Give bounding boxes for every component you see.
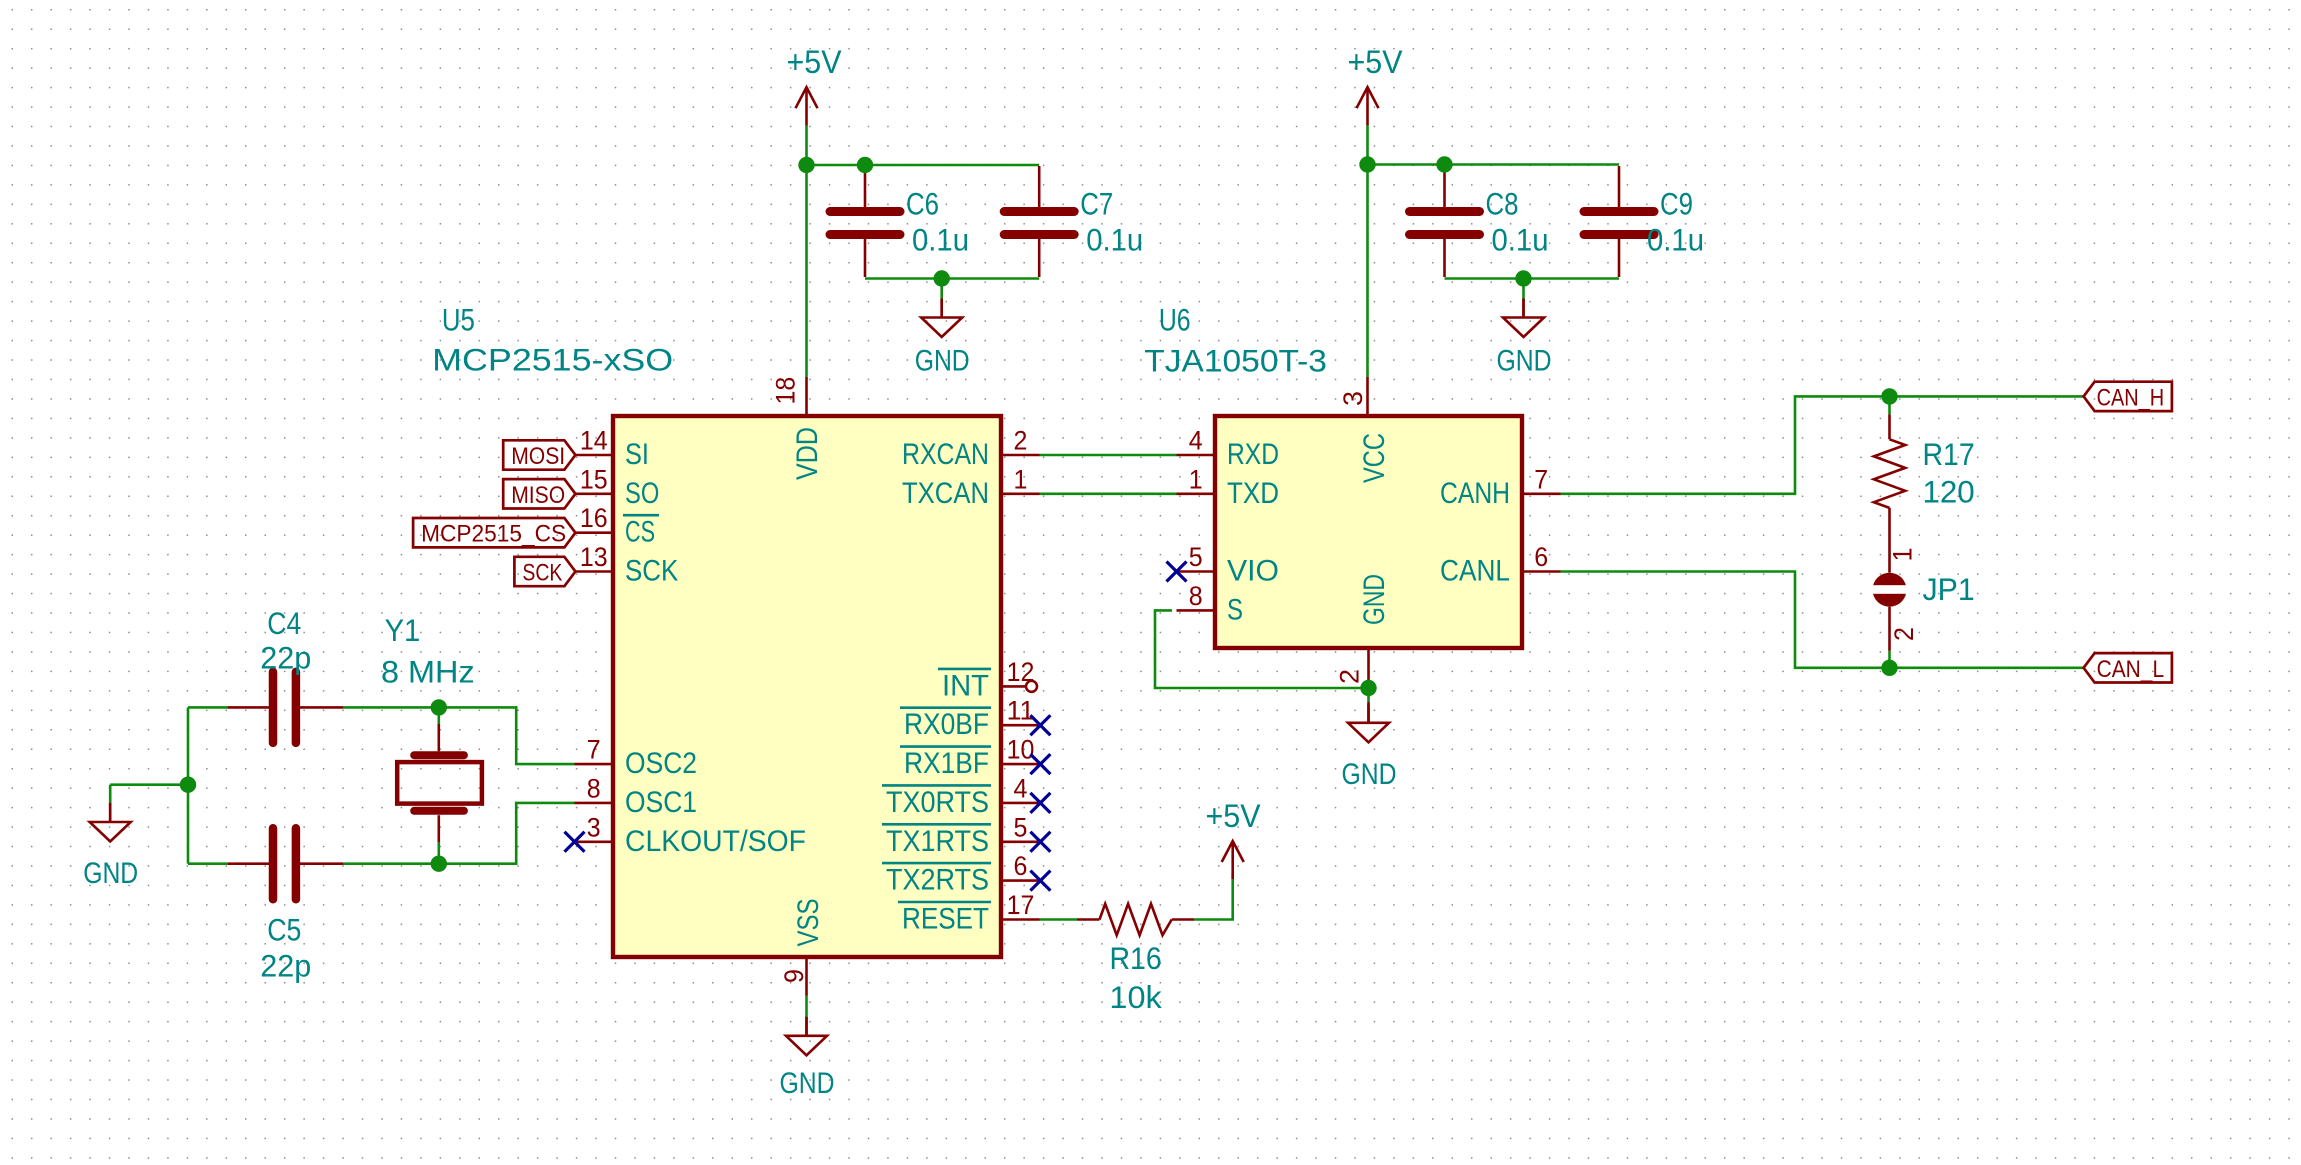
svg-text:0.1u: 0.1u bbox=[1086, 222, 1143, 258]
svg-text:11: 11 bbox=[1007, 696, 1035, 726]
svg-text:CAN_H: CAN_H bbox=[2097, 384, 2165, 411]
svg-text:7: 7 bbox=[587, 735, 601, 765]
svg-text:C5: C5 bbox=[267, 912, 301, 948]
svg-text:TX0RTS: TX0RTS bbox=[886, 786, 989, 819]
svg-text:GND: GND bbox=[780, 1067, 835, 1100]
svg-text:INT: INT bbox=[942, 669, 989, 702]
svg-text:RXD: RXD bbox=[1227, 438, 1279, 471]
svg-text:2: 2 bbox=[1889, 627, 1919, 641]
svg-text:OSC2: OSC2 bbox=[625, 747, 697, 780]
svg-text:TX2RTS: TX2RTS bbox=[886, 864, 989, 897]
svg-text:CAN_L: CAN_L bbox=[2097, 656, 2165, 683]
svg-text:RESET: RESET bbox=[902, 903, 989, 936]
svg-text:CANL: CANL bbox=[1440, 555, 1510, 588]
svg-text:S: S bbox=[1227, 593, 1243, 626]
svg-text:+5V: +5V bbox=[1206, 798, 1262, 834]
svg-text:22p: 22p bbox=[260, 948, 311, 984]
svg-text:GND: GND bbox=[1497, 345, 1552, 378]
svg-text:1: 1 bbox=[1189, 464, 1203, 494]
svg-text:CANH: CANH bbox=[1440, 477, 1510, 510]
svg-text:10k: 10k bbox=[1109, 979, 1162, 1015]
svg-text:SCK: SCK bbox=[522, 560, 563, 587]
svg-text:+5V: +5V bbox=[787, 44, 843, 80]
svg-text:R17: R17 bbox=[1923, 436, 1975, 472]
svg-text:MCP2515_CS: MCP2515_CS bbox=[421, 521, 566, 548]
svg-text:VDD: VDD bbox=[791, 427, 824, 480]
svg-text:120: 120 bbox=[1923, 473, 1975, 509]
svg-text:6: 6 bbox=[1014, 851, 1028, 881]
svg-text:VSS: VSS bbox=[792, 899, 825, 947]
svg-text:CLKOUT/SOF: CLKOUT/SOF bbox=[625, 825, 806, 858]
svg-text:VCC: VCC bbox=[1358, 433, 1391, 483]
svg-text:2: 2 bbox=[1335, 669, 1365, 684]
svg-text:C9: C9 bbox=[1660, 186, 1693, 222]
svg-text:4: 4 bbox=[1189, 426, 1203, 456]
svg-text:MOSI: MOSI bbox=[511, 443, 565, 470]
svg-text:C6: C6 bbox=[906, 186, 939, 222]
svg-text:12: 12 bbox=[1007, 657, 1035, 687]
svg-text:14: 14 bbox=[580, 426, 608, 456]
svg-text:JP1: JP1 bbox=[1923, 571, 1975, 607]
svg-text:C4: C4 bbox=[267, 605, 301, 641]
svg-text:4: 4 bbox=[1014, 773, 1028, 803]
svg-text:VIO: VIO bbox=[1227, 555, 1279, 588]
svg-text:3: 3 bbox=[587, 812, 601, 842]
svg-text:OSC1: OSC1 bbox=[625, 786, 697, 819]
svg-text:0.1u: 0.1u bbox=[1647, 222, 1704, 258]
svg-text:10: 10 bbox=[1007, 735, 1035, 765]
svg-text:RXCAN: RXCAN bbox=[902, 438, 989, 471]
svg-text:C7: C7 bbox=[1080, 186, 1113, 222]
svg-text:RX1BF: RX1BF bbox=[904, 747, 989, 780]
svg-text:7: 7 bbox=[1534, 464, 1548, 494]
svg-text:+5V: +5V bbox=[1348, 44, 1404, 80]
svg-text:2: 2 bbox=[1014, 426, 1028, 456]
svg-text:SO: SO bbox=[625, 477, 659, 510]
svg-text:5: 5 bbox=[1014, 812, 1028, 842]
svg-text:8: 8 bbox=[1189, 581, 1203, 611]
svg-text:SCK: SCK bbox=[625, 555, 678, 588]
svg-text:GND: GND bbox=[1358, 574, 1391, 625]
svg-text:18: 18 bbox=[771, 377, 801, 405]
svg-text:17: 17 bbox=[1007, 890, 1035, 920]
svg-text:5: 5 bbox=[1189, 542, 1203, 572]
svg-text:U5: U5 bbox=[442, 301, 475, 337]
svg-text:MISO: MISO bbox=[511, 482, 565, 509]
svg-text:0.1u: 0.1u bbox=[1492, 222, 1549, 258]
svg-text:16: 16 bbox=[580, 503, 608, 533]
svg-text:MCP2515-xSO: MCP2515-xSO bbox=[432, 342, 673, 378]
svg-text:SI: SI bbox=[625, 438, 649, 471]
svg-text:C8: C8 bbox=[1486, 186, 1519, 222]
svg-text:RX0BF: RX0BF bbox=[904, 708, 989, 741]
svg-text:8: 8 bbox=[587, 773, 601, 803]
svg-text:8 MHz: 8 MHz bbox=[381, 654, 475, 690]
svg-text:1: 1 bbox=[1014, 464, 1028, 494]
svg-text:1: 1 bbox=[1888, 548, 1918, 562]
svg-text:U6: U6 bbox=[1159, 301, 1191, 337]
svg-text:TJA1050T-3: TJA1050T-3 bbox=[1144, 343, 1327, 379]
svg-text:15: 15 bbox=[580, 464, 608, 494]
svg-text:0.1u: 0.1u bbox=[912, 222, 969, 258]
svg-text:13: 13 bbox=[580, 542, 608, 572]
svg-text:TX1RTS: TX1RTS bbox=[886, 825, 989, 858]
svg-text:GND: GND bbox=[1342, 758, 1397, 791]
svg-text:22p: 22p bbox=[260, 639, 311, 675]
svg-text:CS: CS bbox=[625, 516, 655, 549]
svg-text:TXCAN: TXCAN bbox=[902, 477, 989, 510]
svg-text:9: 9 bbox=[779, 969, 809, 983]
svg-text:GND: GND bbox=[83, 857, 138, 890]
svg-text:R16: R16 bbox=[1109, 940, 1161, 976]
svg-text:GND: GND bbox=[915, 345, 970, 378]
svg-text:Y1: Y1 bbox=[385, 612, 421, 648]
svg-text:3: 3 bbox=[1338, 391, 1368, 406]
svg-text:6: 6 bbox=[1534, 542, 1548, 572]
svg-text:TXD: TXD bbox=[1227, 477, 1279, 510]
